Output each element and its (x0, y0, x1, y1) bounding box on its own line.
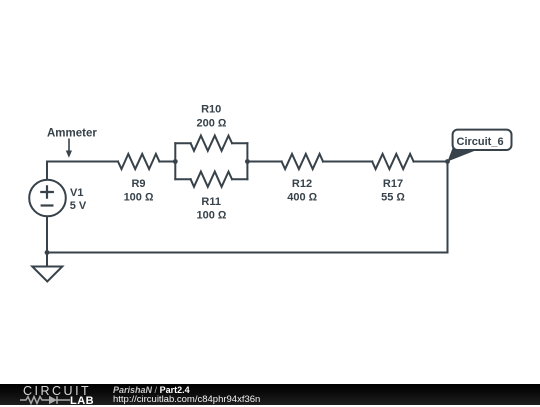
svg-text:R17: R17 (383, 178, 403, 190)
logo CIRCUIT word (23, 384, 91, 398)
wire bottom branch right stub (232, 178, 247, 180)
logo wire to LAB (56, 399, 70, 401)
voltage source V1 circle (29, 180, 66, 217)
resistor R9 (118, 154, 159, 169)
wire R17 to node (414, 161, 448, 163)
footer bar (0, 384, 540, 405)
ground (32, 267, 62, 282)
logo diode triangle (49, 396, 57, 404)
node dot right of parallel block (245, 159, 250, 164)
wire bottom return (47, 252, 448, 254)
flag Circuit_6 pointer tail (448, 148, 477, 161)
svg-text:R12: R12 (292, 178, 312, 190)
svg-text:5 V: 5 V (70, 200, 87, 212)
ammeter arrow head (66, 151, 72, 158)
wire top branch right stub (232, 142, 247, 144)
V1 plus sign (41, 186, 53, 197)
svg-text:R10: R10 (201, 104, 221, 116)
resistor R17 (372, 154, 413, 169)
svg-text:400 Ω: 400 Ω (287, 192, 317, 204)
node dot Circuit_6 (445, 159, 450, 164)
wire top branch left stub (175, 142, 190, 144)
wire V1 bottom to ground node (46, 216, 48, 252)
wire R9 to parallel block (159, 161, 175, 163)
ammeter arrow shaft (68, 139, 70, 151)
wire bottom branch left stub (175, 178, 190, 180)
wire left vertical of parallel block (174, 143, 176, 179)
svg-text:R9: R9 (131, 178, 145, 190)
svg-text:V1: V1 (70, 187, 83, 199)
wire right vertical of parallel block (246, 143, 248, 179)
svg-text:55 Ω: 55 Ω (381, 192, 405, 204)
flag Circuit_6 box (453, 130, 512, 150)
wire parallel block to R12 (247, 161, 281, 163)
svg-text:200 Ω: 200 Ω (196, 118, 226, 130)
node dot ground (45, 250, 50, 255)
labels (47, 104, 504, 222)
ground stub (46, 253, 48, 267)
svg-text:100 Ω: 100 Ω (196, 210, 226, 222)
V1 minus sign (42, 204, 53, 206)
resistor R11 (191, 172, 232, 187)
svg-text:R11: R11 (201, 196, 221, 208)
svg-text:Ammeter: Ammeter (47, 128, 97, 140)
logo diode cathode bar (56, 396, 58, 404)
footer url (113, 394, 260, 405)
logo resistor squiggle (20, 397, 49, 404)
resistor R12 (282, 154, 323, 169)
wire R12 to R17 (323, 161, 372, 163)
svg-text:100 Ω: 100 Ω (124, 192, 154, 204)
svg-text:Circuit_6: Circuit_6 (457, 136, 504, 148)
node dot left of parallel block (173, 159, 178, 164)
wire right vertical down (447, 162, 449, 253)
resistor R10 (191, 136, 232, 151)
logo squiggle (20, 394, 72, 406)
footer title (113, 385, 190, 395)
logo LAB word (70, 395, 94, 407)
wire top-left corner from V1 up and right to R9 (47, 162, 118, 180)
